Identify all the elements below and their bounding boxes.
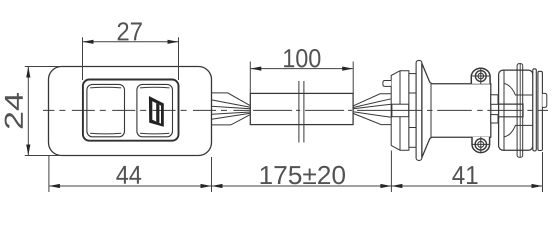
dim text 100 — [284, 49, 320, 68]
window icon on right button — [149, 96, 164, 127]
neck step line lower — [409, 127, 416, 129]
dim 27 extension right — [178, 37, 180, 80]
wire 1 (body to sleeve, top) — [212, 93, 251, 125]
arrow 24 up — [26, 67, 30, 78]
dim 100 extension left — [249, 62, 251, 94]
wire 7 (sleeve to connector, top) — [353, 94, 391, 125]
dim 100 extension right — [352, 62, 354, 94]
arrow 44 left — [49, 184, 60, 188]
right button bottom contour — [140, 132, 169, 135]
cup inner contour bottom — [504, 125, 533, 137]
dim 24 extension bottom — [25, 155, 62, 157]
arrow 41 right — [532, 184, 543, 188]
dim 175 line — [212, 185, 391, 187]
bottom ear screw hole — [475, 139, 486, 150]
end keying tab — [542, 93, 546, 107]
cable sleeve — [250, 93, 353, 124]
switch body — [49, 67, 212, 156]
centerline (dash-dot axis) — [43, 109, 250, 111]
cup inner wall — [503, 70, 505, 150]
cup clamp ring — [517, 64, 523, 158]
dim 41 extension right — [542, 152, 544, 192]
wire 6 (bottom) — [212, 115, 251, 125]
arrow 44 right — [201, 184, 212, 188]
arrow 27 left — [83, 40, 94, 44]
sleeve break mark lines — [299, 81, 304, 143]
dim text 41 — [452, 166, 477, 184]
left button top contour — [90, 86, 121, 89]
dim 27 extension left — [82, 37, 84, 80]
dim text 175±20 — [261, 166, 345, 185]
dim text 24 (rotated) — [5, 93, 23, 128]
arrow 24 down — [26, 145, 30, 156]
dim 100 line — [251, 68, 353, 70]
front cup housing — [499, 70, 533, 150]
dim 41 line — [391, 185, 542, 187]
arrow 100 left — [250, 67, 261, 71]
connector rear housing — [391, 71, 409, 151]
arrow 41 left — [391, 184, 402, 188]
left rocker button — [87, 84, 125, 136]
dim text 27 — [118, 22, 142, 40]
window icon divider bar — [156, 103, 159, 123]
coupling tab lower — [491, 115, 498, 123]
coupling tab upper — [491, 95, 498, 105]
dim 24 line — [27, 67, 29, 155]
rear housing inner edge — [399, 71, 401, 151]
connector flange — [416, 60, 422, 160]
wire 11 (bottom) — [353, 113, 391, 124]
left button bottom contour — [90, 132, 121, 135]
wire 5 — [212, 113, 251, 119]
connector bell and barrel — [422, 63, 491, 157]
cup inner contour top — [504, 83, 533, 95]
front disc 1 — [533, 69, 537, 151]
connector top latch tab — [383, 81, 391, 87]
centerline right — [392, 109, 548, 111]
shared extension body right — [211, 157, 213, 192]
right button top contour — [140, 86, 169, 89]
arrow 27 right — [168, 40, 179, 44]
dim 44 line — [49, 185, 211, 187]
top ear screw hole — [475, 71, 486, 82]
dim 27 line — [83, 41, 178, 43]
wire 10 — [353, 112, 391, 118]
wire boot — [392, 104, 409, 117]
arrow 175 right — [380, 184, 391, 188]
arrow 175 left — [212, 184, 223, 188]
dim text 44 — [116, 166, 141, 184]
connector neck — [409, 74, 416, 148]
dim 24 extension top — [25, 66, 62, 68]
dim 44 extension left — [48, 156, 50, 192]
barrel bottom mounting ear — [472, 137, 490, 153]
front disc 2 — [538, 71, 543, 150]
wire 2 — [212, 100, 251, 107]
shared extension connector left — [390, 151, 392, 193]
barrel top mounting ear — [471, 68, 490, 84]
switch bezel frame — [83, 80, 179, 141]
wire 9 — [353, 104, 391, 109]
wire 3 — [212, 106, 251, 109]
wire 4 — [212, 112, 251, 114]
wire 8 — [353, 99, 391, 108]
neck step line upper — [409, 92, 416, 94]
cup socket slot — [499, 104, 523, 117]
barrel junction ring — [430, 84, 432, 137]
cup clamp ring inner line — [519, 64, 521, 157]
arrow 100 right — [342, 67, 353, 71]
right rocker button — [137, 84, 173, 136]
centerline middle — [250, 109, 392, 111]
